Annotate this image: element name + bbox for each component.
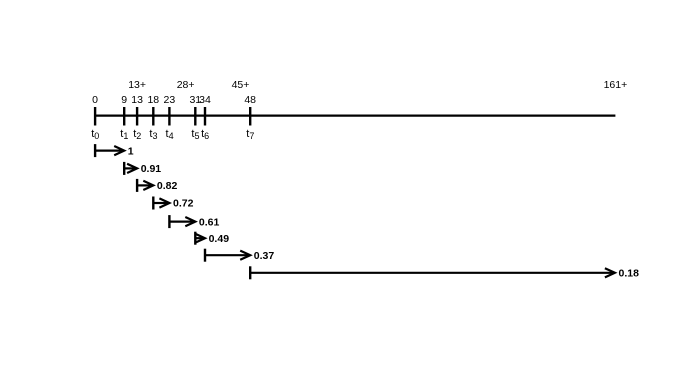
- svg-text:13: 13: [131, 94, 143, 106]
- svg-text:23: 23: [164, 94, 176, 106]
- interval arrow S=0.37 (t6 to t7): [205, 249, 274, 262]
- svg-text:0.49: 0.49: [209, 233, 230, 245]
- svg-text:45+: 45+: [232, 79, 250, 91]
- tick t5: [194, 107, 196, 126]
- interval arrow S=1 (t0 to t1): [95, 144, 134, 157]
- svg-text:0.72: 0.72: [173, 198, 194, 210]
- tick t3: [152, 107, 154, 126]
- svg-text:34: 34: [199, 94, 211, 106]
- tick t0: [94, 107, 96, 126]
- svg-text:48: 48: [244, 94, 256, 106]
- svg-text:0.18: 0.18: [619, 268, 640, 280]
- tick t6: [204, 107, 206, 126]
- svg-text:0.37: 0.37: [254, 250, 275, 262]
- tick t2: [136, 107, 138, 126]
- svg-text:0.82: 0.82: [157, 180, 178, 192]
- svg-text:0.91: 0.91: [141, 163, 162, 175]
- tick t4: [168, 107, 170, 126]
- axis line: [95, 114, 615, 116]
- svg-text:28+: 28+: [177, 79, 195, 91]
- interval arrow S=0.72 (t3 to t4): [153, 197, 193, 210]
- svg-text:1: 1: [128, 145, 134, 157]
- interval arrow S=0.91 (t1 to t2): [124, 162, 161, 175]
- svg-text:161+: 161+: [604, 79, 628, 91]
- tick t7: [249, 107, 251, 126]
- svg-text:0.61: 0.61: [199, 216, 220, 228]
- svg-text:9: 9: [121, 94, 127, 106]
- interval arrow S=0.82 (t2 to t3): [137, 179, 177, 192]
- tick t1: [123, 107, 125, 126]
- interval arrow S=0.61 (t4 to t5): [169, 215, 219, 228]
- svg-text:18: 18: [147, 94, 159, 106]
- svg-text:0: 0: [92, 94, 98, 106]
- interval arrow S=0.49 (t5 to t6): [195, 232, 229, 245]
- svg-text:13+: 13+: [128, 79, 146, 91]
- interval arrow S=0.18 (t7 to 161): [250, 266, 639, 279]
